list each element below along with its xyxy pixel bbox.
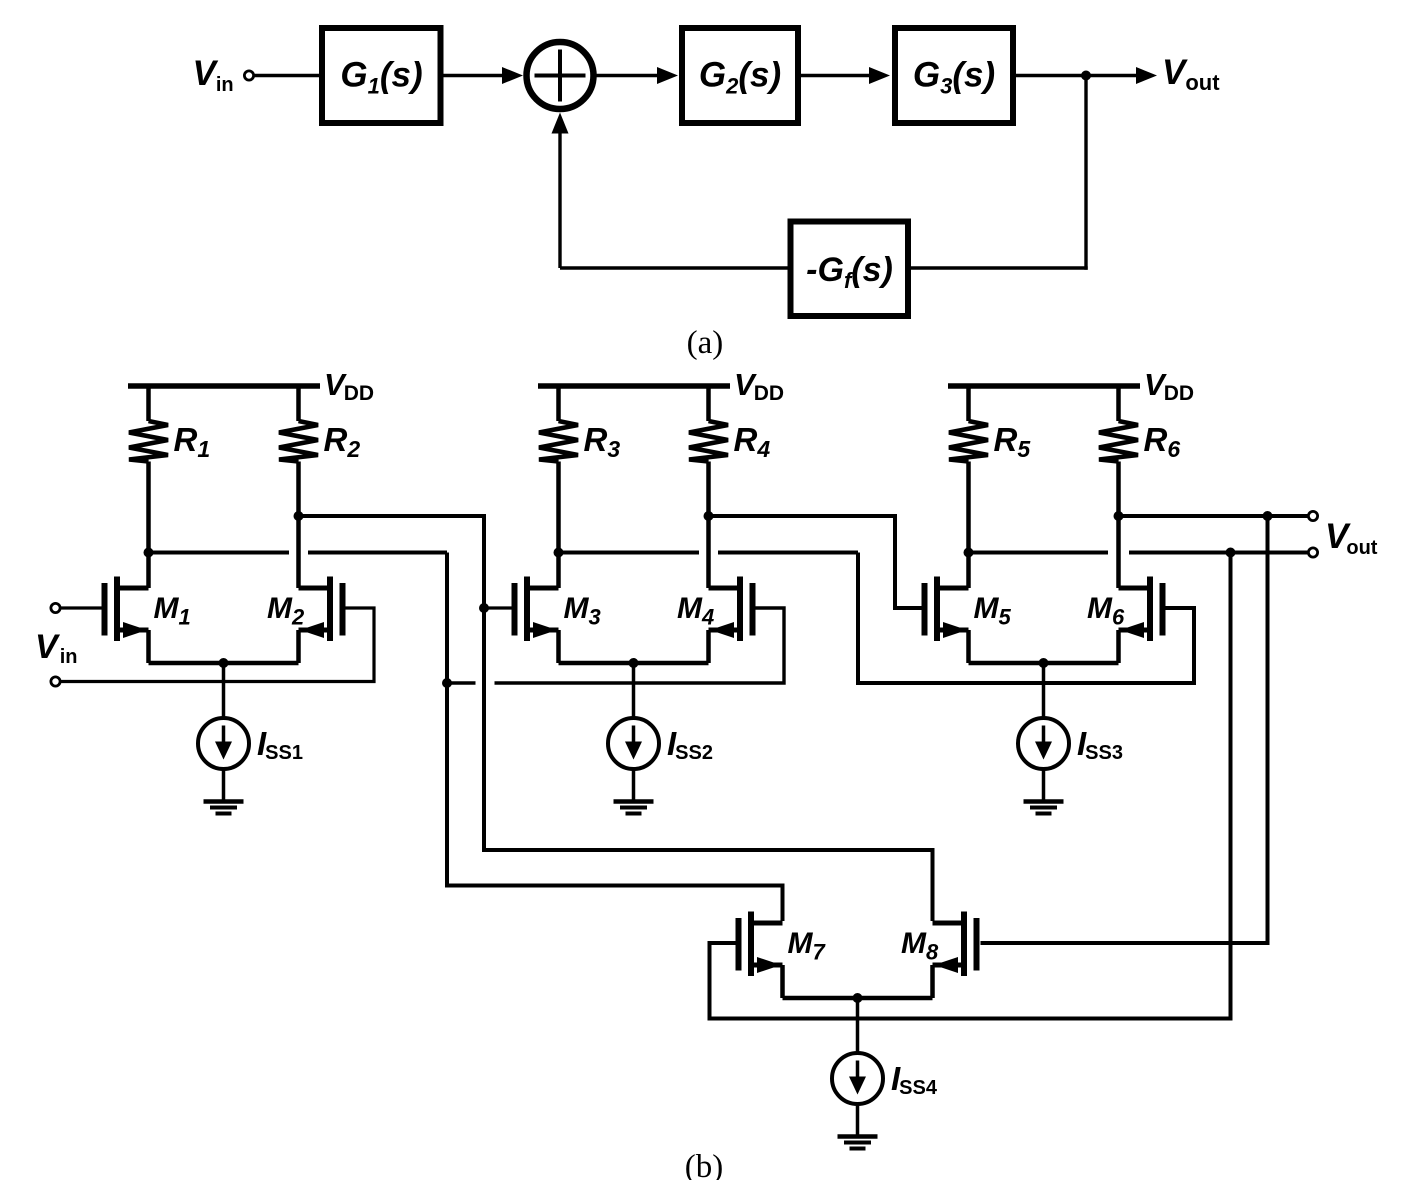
output terminal Vout+	[1308, 511, 1317, 520]
transistor M1	[102, 583, 108, 636]
feedback wire left segment from Gf	[560, 266, 791, 269]
input terminal Vin+ (b)	[51, 603, 60, 612]
wire G2 to G3 with arrowhead	[798, 74, 871, 77]
current source ISS3	[1018, 718, 1069, 769]
svg-text:(b): (b)	[685, 1149, 723, 1180]
wire ISS4 to ground	[856, 1104, 860, 1135]
resistor R3	[556, 386, 561, 421]
wire branch to M4 gate (gap at crossing)	[447, 681, 476, 684]
transistor M5	[922, 583, 928, 636]
node M5 drain	[964, 548, 974, 558]
resistor R2	[296, 386, 301, 421]
node output junction (a)	[1081, 71, 1091, 81]
summing junction	[527, 42, 594, 109]
wire M5 drain right (gap at R6)	[969, 551, 1109, 555]
svg-text:M3: M3	[564, 592, 601, 630]
node M4 drain	[704, 511, 714, 521]
wire tail stage 2	[559, 661, 709, 666]
wire tail M7 M8	[783, 996, 933, 1001]
svg-text:G1(s): G1(s)	[340, 56, 422, 99]
resistor R1	[146, 386, 151, 421]
transistor M8	[974, 918, 980, 971]
feedback wire right segment to Gf	[909, 266, 1088, 269]
wire down to M7 drain	[447, 553, 783, 922]
svg-text:-Gf(s): -Gf(s)	[806, 251, 893, 293]
svg-text:G3(s): G3(s)	[913, 56, 995, 99]
ground stage 3	[1024, 799, 1064, 804]
svg-text:M2: M2	[267, 592, 305, 630]
wire Vout+ down to M8 gate	[981, 516, 1268, 943]
svg-text:ISS4: ISS4	[891, 1060, 938, 1099]
block -Gf(s)	[791, 222, 909, 317]
wire M1 drain right (gap at R2)	[149, 551, 290, 555]
wire G1 to summer with arrowhead	[444, 74, 505, 77]
svg-text:ISS2: ISS2	[667, 725, 713, 764]
svg-text:M8: M8	[901, 927, 939, 965]
node M3 gate	[479, 603, 489, 613]
svg-text:R1: R1	[174, 421, 211, 462]
wire ISS3 to ground	[1042, 769, 1046, 800]
svg-text:Vout: Vout	[1325, 517, 1378, 559]
node branch to M4 gate	[442, 678, 452, 688]
wire ISS2 to ground	[632, 769, 636, 800]
wire M3 drain right (gap at R4)	[559, 551, 700, 555]
svg-text:G2(s): G2(s)	[699, 56, 781, 99]
svg-text:R3: R3	[584, 421, 621, 462]
svg-text:M4: M4	[677, 592, 714, 630]
VDD rail stage 1	[128, 383, 320, 389]
ground M7 M8	[838, 1134, 878, 1139]
wire M2 drain to M3 gate and M8 drain	[299, 516, 933, 921]
current source ISS4	[832, 1053, 883, 1104]
svg-text:(a): (a)	[687, 325, 724, 361]
svg-text:R2: R2	[324, 421, 361, 462]
current source ISS1	[198, 718, 249, 769]
wire to M3 gate	[484, 606, 512, 609]
svg-text:R4: R4	[734, 421, 771, 462]
wire M6 drain to Vout+ terminal	[1119, 514, 1309, 518]
input terminal Vin- (b)	[51, 677, 60, 686]
VDD rail stage 2	[538, 383, 730, 389]
transistor M4	[750, 583, 756, 636]
feedback wire output down	[1084, 76, 1087, 270]
svg-text:Vin: Vin	[193, 54, 234, 96]
node M6 drain	[1114, 511, 1124, 521]
svg-text:VDD: VDD	[734, 367, 784, 405]
wire tail stage 1	[149, 661, 299, 666]
svg-text:Vout: Vout	[1162, 53, 1220, 95]
transistor M7	[736, 918, 742, 971]
svg-text:M7: M7	[788, 927, 827, 965]
output terminal Vout-	[1308, 548, 1317, 557]
node M3 drain	[554, 548, 564, 558]
node tail M7 M8	[853, 993, 863, 1003]
svg-text:R6: R6	[1144, 421, 1181, 462]
wire ISS1 to ground	[222, 769, 226, 800]
svg-text:M1: M1	[154, 592, 191, 630]
node Vout- tap	[1226, 548, 1236, 558]
wire tail to ISS1	[222, 663, 226, 719]
wire Vin to G1	[254, 74, 321, 77]
wire tail to ISS2	[632, 663, 636, 719]
wire tail to ISS4	[856, 998, 860, 1054]
wire summer to G2 with arrowhead	[594, 74, 660, 77]
node tail stage 1	[219, 658, 229, 668]
ground stage 2	[614, 799, 654, 804]
feedback wire up into summer with arrowhead	[558, 131, 561, 268]
node tail stage 3	[1039, 658, 1049, 668]
block G2	[682, 28, 798, 123]
resistor R4	[706, 386, 711, 421]
current source ISS2	[608, 718, 659, 769]
wire down and right to M6 gate	[858, 553, 1194, 684]
transistor M6	[1160, 583, 1166, 636]
svg-text:VDD: VDD	[324, 367, 374, 405]
svg-text:ISS3: ISS3	[1077, 725, 1123, 764]
svg-text:ISS1: ISS1	[257, 725, 303, 764]
transistor M3	[512, 583, 518, 636]
svg-text:VDD: VDD	[1144, 367, 1194, 405]
resistor R6	[1116, 386, 1121, 421]
wire Vin- to M2 gate	[60, 608, 374, 682]
block G3	[895, 28, 1013, 123]
svg-text:M6: M6	[1087, 592, 1125, 630]
wire tail stage 3	[969, 661, 1119, 666]
node M1 drain	[144, 548, 154, 558]
wire M4 drain to M5 gate	[709, 516, 922, 608]
node Vout+ tap	[1263, 511, 1273, 521]
ground stage 1	[204, 799, 244, 804]
VDD rail stage 3	[948, 383, 1140, 389]
input terminal Vin (a)	[244, 71, 253, 80]
svg-text:Vin: Vin	[35, 628, 77, 668]
svg-text:R5: R5	[994, 421, 1032, 462]
resistor R5	[966, 386, 971, 421]
svg-text:M5: M5	[974, 592, 1012, 630]
node M2 drain	[294, 511, 304, 521]
wire tail to ISS3	[1042, 663, 1046, 719]
wire Vin+ to M1 gate	[60, 606, 102, 609]
node tail stage 2	[629, 658, 639, 668]
wire G3 to Vout with arrowhead	[1016, 74, 1137, 77]
transistor M2	[340, 583, 346, 636]
block G1	[322, 28, 441, 123]
wire Vout- down to M7 gate	[710, 553, 1231, 1019]
